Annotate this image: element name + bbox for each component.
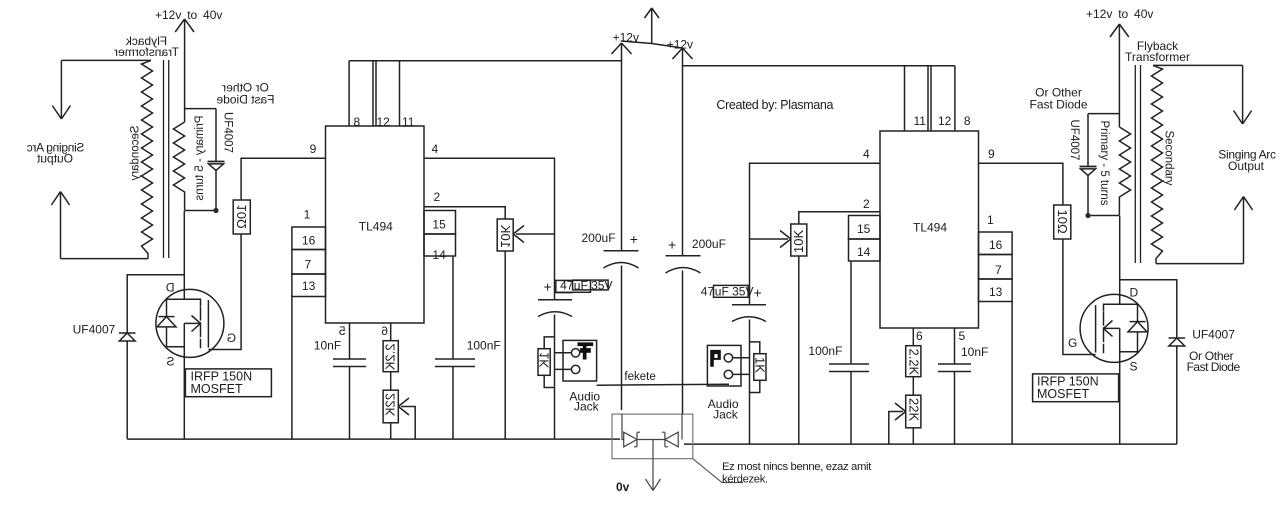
svg-text:+: + (544, 279, 552, 295)
svg-text:10nF: 10nF (961, 345, 988, 359)
svg-text:+12v: +12v (613, 31, 639, 45)
svg-text:Output: Output (1228, 159, 1265, 173)
svg-text:TL494: TL494 (913, 221, 947, 235)
svg-text:7: 7 (995, 263, 1002, 277)
svg-text:200uF: 200uF (582, 231, 616, 245)
svg-text:2: 2 (863, 197, 870, 211)
svg-text:+12v to 40v: +12v to 40v (1086, 7, 1153, 21)
svg-text:14: 14 (857, 245, 871, 259)
svg-text:10nF: 10nF (314, 339, 341, 353)
svg-text:15: 15 (857, 222, 871, 236)
svg-text:UF4007: UF4007 (73, 323, 116, 337)
svg-text:4: 4 (432, 142, 439, 156)
svg-text:4: 4 (863, 147, 870, 161)
svg-text:14: 14 (432, 248, 446, 262)
svg-text:8: 8 (964, 114, 971, 128)
svg-text:fekete: fekete (624, 371, 655, 383)
svg-text:100nF: 100nF (467, 339, 501, 353)
svg-text:+12v to 40v: +12v to 40v (155, 8, 222, 22)
svg-text:47: 47 (560, 279, 574, 293)
svg-text:MOSFET: MOSFET (191, 382, 243, 396)
svg-text:kérdezek.: kérdezek. (722, 474, 768, 486)
svg-text:+: + (630, 231, 638, 247)
svg-text:+: + (668, 237, 676, 253)
svg-text:11: 11 (402, 115, 415, 129)
svg-text:Created by: Plasmana: Created by: Plasmana (716, 98, 833, 112)
svg-text:Jack: Jack (574, 400, 600, 414)
svg-text:7: 7 (305, 258, 312, 272)
svg-text:MOSFET: MOSFET (1037, 387, 1089, 401)
svg-text:UF4007: UF4007 (1068, 120, 1080, 161)
svg-text:Ez most nincs benne, ezaz amit: Ez most nincs benne, ezaz amit (722, 461, 872, 473)
svg-text:+: + (754, 285, 762, 301)
svg-text:13: 13 (302, 279, 316, 293)
svg-text:Output: Output (36, 151, 73, 165)
svg-text:16: 16 (989, 238, 1003, 252)
svg-text:8: 8 (354, 115, 361, 129)
svg-text:9: 9 (310, 142, 317, 156)
svg-text:UF4007: UF4007 (1192, 328, 1235, 342)
svg-text:12: 12 (938, 114, 952, 128)
svg-text:16: 16 (302, 234, 316, 248)
svg-text:11: 11 (914, 114, 927, 128)
svg-text:47: 47 (701, 285, 715, 299)
svg-text:12: 12 (377, 115, 391, 129)
svg-text:+12v: +12v (667, 38, 693, 52)
svg-text:15: 15 (432, 218, 446, 232)
svg-text:9: 9 (988, 147, 995, 161)
svg-text:uF 35V: uF 35V (715, 285, 754, 299)
svg-text:13: 13 (989, 285, 1003, 299)
svg-text:1: 1 (987, 213, 994, 227)
svg-text:TL494: TL494 (359, 220, 393, 234)
svg-text:1: 1 (304, 208, 311, 222)
svg-text:200uF: 200uF (692, 237, 726, 251)
svg-text:Fast Diode: Fast Diode (1187, 360, 1241, 374)
svg-text:Jack: Jack (713, 408, 739, 422)
svg-text:UF4007: UF4007 (221, 112, 233, 153)
svg-text:100nF: 100nF (808, 344, 842, 358)
svg-text:2: 2 (434, 190, 441, 204)
svg-text:0v: 0v (616, 480, 630, 494)
